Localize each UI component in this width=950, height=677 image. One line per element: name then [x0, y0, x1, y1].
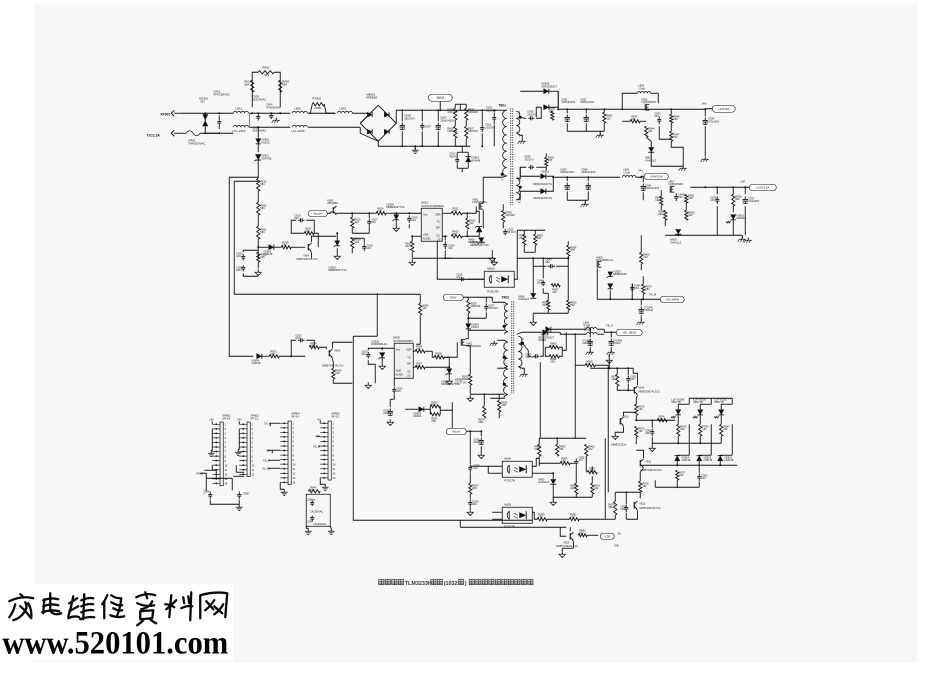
svg-text:C807: C807	[424, 124, 431, 128]
svg-text:NTD4809N-1G: NTD4809N-1G	[596, 258, 613, 262]
wire connector routing	[200, 473, 206, 491]
diode VD806 FR104	[419, 407, 424, 412]
svg-text:TJC2.3A: TJC2.3A	[146, 133, 160, 137]
resistor R807	[465, 126, 468, 138]
chassis ground	[682, 166, 684, 169]
svg-text:104: 104	[710, 198, 715, 202]
capacitor C848	[589, 338, 591, 341]
ground	[307, 528, 309, 531]
capacitor C845	[542, 280, 544, 282]
inductor L808	[586, 332, 597, 334]
ground	[389, 419, 391, 422]
choke L802 LCL-2420	[292, 111, 307, 113]
svg-text:24V: 24V	[638, 168, 643, 172]
capacitor C847	[533, 355, 536, 357]
capacitor C841	[642, 183, 644, 186]
svg-text:SC: SC	[436, 233, 440, 237]
capacitor C856	[209, 491, 211, 494]
capacitor C817	[368, 218, 370, 221]
node 360V	[443, 294, 463, 301]
svg-text:104: 104	[654, 114, 659, 118]
wire loop to optos	[353, 336, 532, 520]
svg-text:162: 162	[688, 213, 693, 217]
svg-text:153: 153	[673, 117, 678, 121]
resistor R836	[419, 303, 422, 315]
svg-text:202: 202	[519, 236, 524, 240]
svg-text:684: 684	[260, 182, 265, 186]
svg-text:14V: 14V	[701, 101, 706, 105]
resistor R872	[635, 404, 638, 415]
svg-text:105: 105	[630, 377, 635, 381]
svg-text:104: 104	[354, 240, 359, 244]
svg-text:562: 562	[642, 484, 647, 488]
resistor R810	[451, 235, 462, 238]
ground	[336, 253, 338, 256]
capacitor C834	[704, 117, 706, 120]
svg-text:O5RT3B: O5RT3B	[261, 156, 271, 160]
zener VZ809	[335, 241, 340, 246]
resistor R838	[502, 210, 505, 222]
diode VD810b	[543, 330, 548, 335]
shunt regulator N806 KA431LZ	[530, 293, 536, 298]
svg-text:56 1KV: 56 1KV	[507, 230, 516, 234]
resistor R880	[537, 518, 547, 521]
inductor L803	[337, 111, 352, 113]
svg-text:5DR: 5DR	[435, 212, 440, 216]
resistor R862	[538, 444, 541, 456]
svg-text:NCP1217AD65R2G: NCP1217AD65R2G	[421, 204, 444, 208]
svg-text:VD810: VD810	[538, 338, 546, 342]
svg-text:561: 561	[200, 100, 205, 104]
chassis ground	[589, 350, 591, 353]
ground	[210, 450, 212, 453]
svg-text:1N4148: 1N4148	[724, 458, 734, 462]
svg-text:228: 228	[550, 360, 555, 364]
svg-text:752: 752	[538, 515, 543, 519]
resistor R820	[257, 202, 260, 215]
wire	[575, 466, 577, 483]
resistor R819	[257, 178, 260, 191]
capacitor C827	[485, 303, 487, 306]
ground	[395, 225, 397, 228]
T802 secondary winding	[518, 336, 522, 366]
ground	[640, 320, 642, 323]
svg-text:103: 103	[606, 116, 611, 120]
resistor R839	[732, 194, 735, 206]
capacitor C830	[528, 117, 530, 119]
resistor R875	[635, 426, 638, 437]
svg-text:FR104: FR104	[413, 414, 421, 418]
svg-text:912: 912	[586, 362, 591, 366]
svg-text:1000uF: 1000uF	[582, 341, 591, 345]
svg-text:PC817B: PC817B	[487, 289, 498, 293]
svg-text:825: 825	[310, 488, 315, 492]
svg-text:204: 204	[542, 303, 547, 307]
capacitor C831	[566, 114, 568, 117]
svg-text:Vcc: Vcc	[423, 212, 428, 216]
svg-text:28C2655: 28C2655	[327, 201, 338, 205]
resistor R802 top loop	[252, 72, 258, 107]
svg-text:KA431LZ: KA431LZ	[538, 480, 549, 484]
resistor R881	[569, 518, 579, 521]
svg-text:105: 105	[260, 255, 265, 259]
chassis ground rail	[567, 130, 604, 132]
varistor RZ901	[204, 113, 206, 133]
ground	[491, 255, 493, 258]
wire 24V rail	[553, 176, 620, 178]
svg-text:FQPF20N06: FQPF20N06	[668, 182, 683, 186]
wire long vertical pair	[604, 438, 606, 519]
wire	[574, 334, 576, 438]
ground	[552, 499, 554, 502]
resistor R852	[545, 157, 548, 166]
T802 primary winding 3	[504, 369, 508, 394]
capacitor C854	[625, 504, 627, 507]
svg-text:05R77B: 05R77B	[671, 400, 681, 404]
resistor R879	[614, 501, 617, 515]
svg-text:360V: 360V	[437, 96, 445, 100]
svg-text:1000uF/25V: 1000uF/25V	[561, 100, 575, 104]
svg-text:684: 684	[264, 73, 269, 77]
svg-text:L803: L803	[339, 106, 346, 110]
svg-text:BP: BP	[407, 361, 411, 365]
svg-text:684: 684	[260, 206, 265, 210]
svg-text:N803: N803	[504, 502, 511, 506]
svg-text:Vsccm: Vsccm	[452, 430, 461, 434]
capacitor C846	[640, 306, 642, 309]
svg-text:821: 821	[416, 364, 421, 368]
svg-text:512: 512	[435, 354, 440, 358]
svg-text:ON: ON	[617, 531, 621, 535]
svg-text:162: 162	[655, 198, 660, 202]
svg-text:162: 162	[680, 427, 685, 431]
resistor R851	[685, 194, 688, 203]
svg-text:PC817B: PC817B	[504, 478, 515, 482]
svg-text:223: 223	[658, 212, 663, 216]
capacitor C818	[363, 243, 365, 246]
resistor R877c	[720, 424, 723, 436]
svg-text:1N4148: 1N4148	[703, 458, 713, 462]
svg-text:1K21KV: 1K21KV	[527, 112, 537, 116]
node +5V_MPW	[660, 296, 684, 303]
svg-text:474: 474	[537, 281, 542, 285]
svg-text:104: 104	[448, 246, 453, 250]
svg-text:RAE1C: RAE1C	[261, 140, 270, 144]
resistor R867	[587, 471, 597, 474]
capacitor C835	[658, 116, 660, 119]
diode VD814	[675, 456, 680, 461]
inductor L807	[586, 327, 597, 329]
capacitor C853	[698, 473, 700, 476]
T801 primary winding pins 1-2	[503, 110, 507, 176]
resistor R868	[585, 364, 595, 367]
svg-text:2S: 2S	[407, 373, 410, 377]
svg-text:V813: V813	[563, 540, 570, 544]
capacitor C855	[575, 458, 577, 461]
resistor R833	[430, 413, 440, 416]
bridge rectifier VB801	[360, 105, 396, 141]
svg-text:100K2W: 100K2W	[447, 129, 458, 133]
svg-text:T801: T801	[498, 103, 506, 107]
diode VD812	[541, 189, 546, 194]
wire 5V_M rail	[597, 298, 662, 300]
resistor R866	[575, 483, 578, 494]
svg-text:27K: 27K	[416, 347, 421, 351]
svg-text:): )	[465, 581, 467, 587]
diode VD804	[257, 354, 262, 359]
svg-text:150: 150	[396, 389, 401, 393]
resistor R812	[466, 218, 469, 229]
capacitor C851	[627, 375, 629, 378]
transistor V813	[569, 533, 571, 539]
transistor V811	[639, 460, 641, 466]
wire 14V rail	[558, 108, 700, 110]
svg-text:104: 104	[366, 246, 371, 250]
svg-text:100: 100	[472, 502, 477, 506]
svg-text:4.7uH: 4.7uH	[584, 328, 591, 332]
svg-text:L801: L801	[235, 106, 242, 110]
resistor R842	[603, 112, 606, 123]
diode VD817	[608, 284, 613, 289]
resistor R857	[551, 284, 560, 287]
svg-text:470uF: 470uF	[613, 341, 621, 345]
ground	[480, 452, 482, 455]
resistor R878	[639, 481, 642, 492]
svg-text:1K21KV: 1K21KV	[524, 157, 534, 161]
svg-text:FE_M: FE_M	[649, 292, 656, 296]
ground	[411, 259, 413, 262]
shunt regulator N808 KA431LZ	[675, 229, 681, 234]
watermark chinese calligraphy 家电维修资料网	[9, 592, 227, 625]
capacitor C836b	[716, 196, 718, 199]
svg-text:762: 762	[673, 135, 678, 139]
capacitor C821	[242, 265, 244, 267]
svg-text:GREEN: GREEN	[736, 216, 745, 220]
svg-text:22uF: 22uF	[473, 440, 479, 444]
resistor R854	[523, 234, 526, 245]
svg-text:153: 153	[282, 243, 287, 247]
svg-text:FE_S: FE_S	[606, 323, 613, 327]
resistor R822	[257, 252, 260, 262]
svg-text:VD811: VD811	[541, 169, 549, 173]
capacitor C806	[401, 122, 403, 125]
diode VD802	[466, 157, 471, 162]
svg-text:153: 153	[688, 196, 693, 200]
svg-text:MMBZ5237T1G: MMBZ5237T1G	[328, 268, 346, 272]
resistor R834	[483, 406, 486, 418]
svg-text:684: 684	[244, 82, 249, 86]
T801 secondary winding 1 pins 3-8	[516, 111, 520, 133]
svg-text:R802: R802	[262, 65, 270, 69]
svg-text:+12V/3.5A: +12V/3.5A	[756, 186, 769, 190]
svg-text:N801: N801	[421, 200, 428, 204]
svg-text:225: 225	[236, 268, 241, 272]
chassis ground	[493, 341, 495, 344]
ground	[469, 509, 471, 512]
svg-text:100K2W: 100K2W	[447, 110, 458, 114]
wire control bus	[336, 212, 374, 214]
svg-text:1000uF/25V: 1000uF/25V	[580, 100, 594, 104]
svg-text:1000uF/35V: 1000uF/35V	[645, 186, 659, 190]
svg-text:XP-14: XP-14	[291, 414, 299, 418]
svg-text:358: 358	[608, 505, 613, 509]
resistor R876	[677, 424, 680, 436]
capacitor C823	[367, 352, 369, 355]
diode VD816	[718, 456, 723, 461]
capacitor C812	[456, 156, 458, 159]
svg-text:472: 472	[456, 275, 461, 279]
capacitor C837	[744, 196, 746, 199]
zener VZ805	[394, 215, 399, 220]
svg-text:XP-12: XP-12	[250, 416, 258, 420]
wire N802 supply	[376, 294, 378, 336]
svg-text:S/B: S/B	[614, 543, 618, 547]
svg-text:100K2W: 100K2W	[470, 304, 481, 308]
svg-text:1.5uH: 1.5uH	[638, 86, 645, 90]
svg-text:V811: V811	[645, 459, 651, 463]
resistor R843	[630, 120, 640, 123]
capacitor C803	[257, 114, 259, 117]
svg-text:RT801: RT801	[312, 96, 321, 100]
svg-text:L802: L802	[294, 106, 301, 110]
svg-text:182/1KV: 182/1KV	[404, 116, 415, 120]
svg-text:05R77B: 05R77B	[693, 400, 703, 404]
svg-text:1K22NVAC: 1K22NVAC	[310, 509, 323, 513]
svg-text:104: 104	[361, 352, 366, 356]
capacitor C849	[610, 338, 612, 341]
resistor R858	[547, 300, 550, 310]
svg-text:LCL-2420: LCL-2420	[291, 129, 305, 133]
ground	[561, 551, 563, 554]
svg-text:470u/25V: 470u/25V	[748, 199, 759, 203]
diode VD815	[697, 456, 702, 461]
svg-text:182: 182	[631, 117, 636, 121]
resistor R850	[664, 210, 667, 220]
svg-text:22uF: 22uF	[383, 411, 389, 415]
chassis ground	[747, 238, 749, 241]
svg-text:+14V/2A: +14V/2A	[718, 107, 730, 111]
svg-text:Vcc: Vcc	[396, 347, 401, 351]
svg-text:104: 104	[411, 218, 416, 222]
svg-text:132: 132	[561, 459, 566, 463]
transistor V804	[307, 244, 309, 250]
wire feedback to opto	[437, 241, 484, 279]
resistor R825	[332, 368, 335, 379]
svg-text:941KV: 941KV	[449, 154, 457, 158]
svg-text:MMBT2907ALT1G: MMBT2907ALT1G	[638, 389, 659, 393]
svg-text:V804: V804	[303, 253, 310, 257]
resistor R870	[642, 284, 645, 294]
svg-text:681: 681	[559, 447, 564, 451]
wire LED bottom bus	[652, 442, 721, 444]
capacitor C810	[437, 122, 439, 125]
svg-text:2200uF/35V: 2200uF/35V	[581, 170, 595, 174]
resistor R863	[556, 444, 559, 456]
svg-text:471/1KV: 471/1KV	[488, 306, 498, 310]
resistor R876b	[699, 424, 702, 436]
svg-text:Vsccum: Vsccum	[313, 212, 323, 216]
svg-text:150uF/450V: 150uF/450V	[440, 118, 454, 122]
svg-text:104: 104	[371, 220, 376, 224]
resistor R844	[645, 126, 648, 137]
svg-text:684: 684	[260, 230, 265, 234]
svg-text:512: 512	[579, 531, 584, 535]
svg-text:105: 105	[645, 431, 650, 435]
svg-text:XP901: XP901	[160, 112, 170, 116]
wire	[590, 367, 633, 369]
svg-text:MMBT2222A: MMBT2222A	[611, 442, 626, 446]
resistor R882	[578, 534, 587, 537]
svg-text:24V: 24V	[237, 417, 242, 421]
svg-text:10R: 10R	[501, 403, 506, 407]
svg-text:104: 104	[294, 216, 299, 220]
resistor R826	[415, 350, 425, 353]
diode VD801	[256, 139, 261, 144]
svg-text:L2F: L2F	[740, 179, 745, 183]
wire	[614, 492, 616, 501]
svg-text:475: 475	[570, 248, 575, 252]
resistor R829	[467, 300, 470, 313]
svg-text:FQPF9N90C: FQPF9N90C	[472, 200, 487, 204]
wire opto connections	[470, 465, 502, 467]
transistor V803 28C2655	[332, 207, 334, 213]
capacitor C844	[631, 284, 633, 287]
capacitor C825	[389, 408, 391, 411]
svg-text:22K/2W: 22K/2W	[505, 213, 515, 217]
svg-text:713: 713	[658, 417, 663, 421]
capacitor C826	[480, 437, 482, 440]
svg-text:100K2W: 100K2W	[468, 129, 479, 133]
svg-text:360V: 360V	[450, 296, 457, 300]
svg-text:474/250VAC: 474/250VAC	[266, 105, 281, 109]
svg-text:AGND: AGND	[395, 372, 403, 376]
shunt N809 KA431LZ	[550, 479, 556, 484]
svg-text:AD8: AD8	[423, 232, 429, 236]
svg-text:102: 102	[552, 290, 557, 294]
resistor R814	[376, 212, 386, 215]
resistor R853	[685, 210, 688, 220]
wire feedback bus	[514, 230, 517, 279]
resistor R855	[534, 234, 537, 245]
wire V802 gate	[444, 342, 457, 357]
svg-text:SC: SC	[407, 369, 411, 373]
svg-text:KA431LZ: KA431LZ	[518, 297, 529, 301]
svg-text:162: 162	[638, 429, 643, 433]
transistor V802 FQPF9N90C	[460, 339, 462, 346]
resistor R832	[430, 405, 440, 408]
svg-text:05R77B: 05R77B	[714, 400, 724, 404]
svg-text:1K22NVAC: 1K22NVAC	[313, 522, 326, 526]
capacitor C807	[421, 122, 423, 125]
svg-text:162: 162	[723, 427, 728, 431]
capacitor C840	[587, 182, 589, 185]
svg-text:562: 562	[570, 303, 575, 307]
resistor R840	[308, 490, 320, 493]
wire	[181, 112, 202, 114]
chassis ground	[521, 139, 523, 142]
ground	[324, 484, 326, 487]
svg-text:392: 392	[735, 197, 740, 201]
wire LED rail	[636, 419, 675, 421]
svg-text:1N4148: 1N4148	[681, 458, 691, 462]
svg-text:221: 221	[648, 129, 653, 133]
capacitor C814	[444, 241, 446, 244]
svg-text:182: 182	[545, 260, 550, 264]
chassis ground	[567, 199, 588, 201]
choke L801 LCL-2420	[233, 111, 248, 113]
svg-text:www.520101.com: www.520101.com	[2, 625, 228, 661]
svg-text:14V: 14V	[209, 417, 214, 421]
